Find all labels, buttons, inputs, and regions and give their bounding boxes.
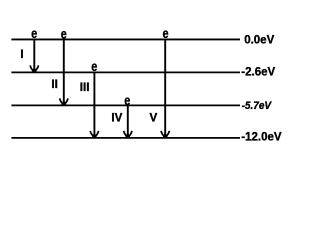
energy level 0.0eV line [11,38,240,40]
svg-text:-12.0eV: -12.0eV [241,132,282,144]
transition arrow III [90,72,98,137]
svg-text:II: II [51,78,57,91]
svg-text:e: e [61,26,67,42]
energy level -12.0eV line [11,137,240,139]
svg-text:V: V [150,111,158,124]
transition arrow IV [124,106,132,137]
svg-text:e: e [31,26,37,42]
svg-text:-5.7eV: -5.7eV [242,99,272,112]
transition arrow V [161,40,169,137]
transition arrow II [60,40,68,105]
svg-text:I: I [20,48,23,61]
energy level -5.7eV line [11,104,240,106]
svg-text:e: e [162,26,168,42]
transition arrow I [30,40,38,72]
svg-text:IV: IV [111,111,122,124]
svg-text:III: III [80,81,90,94]
svg-text:0.0eV: 0.0eV [244,35,274,47]
energy level -2.6eV line [11,71,240,73]
svg-text:-2.6eV: -2.6eV [241,67,275,79]
